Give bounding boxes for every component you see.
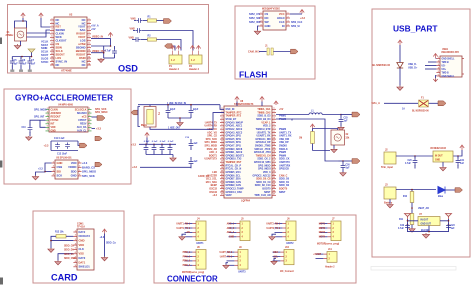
label +3.3 (decoupling) xyxy=(131,143,137,146)
wire decoupling gnd xyxy=(146,155,173,158)
U3 left net labels xyxy=(249,12,261,24)
ground (J9) xyxy=(223,265,229,269)
svg-text:4: 4 xyxy=(47,118,48,121)
U4 right pin labels xyxy=(75,108,87,132)
svg-text:5: 5 xyxy=(438,71,439,73)
svg-text:9: 9 xyxy=(52,46,53,48)
svg-text:3: 3 xyxy=(53,170,54,172)
svg-text:8: 8 xyxy=(52,43,53,45)
power port VCC (X2) xyxy=(310,124,314,129)
svg-text:DAT1: DAT1 xyxy=(79,260,86,264)
svg-text:4.7uF: 4.7uF xyxy=(405,162,412,165)
wires U8 top-left crystal rows handled below xyxy=(205,121,218,197)
power port VCC (U7 in) xyxy=(405,214,411,220)
svg-text:NC: NC xyxy=(56,21,60,25)
svg-text:SPI2_SI: SPI2_SI xyxy=(291,25,300,28)
svg-text:14: 14 xyxy=(51,62,53,65)
svg-text:1: 1 xyxy=(89,108,90,110)
svg-text:3: 3 xyxy=(274,114,275,116)
port arrow (cap pair) xyxy=(80,143,88,148)
svg-text:13: 13 xyxy=(88,60,90,62)
power port right of U8 top xyxy=(274,101,278,105)
oscillator X2 body xyxy=(331,130,350,145)
svg-text:RST: RST xyxy=(56,25,62,29)
svg-text:4: 4 xyxy=(438,66,439,69)
svg-text:6: 6 xyxy=(274,124,275,126)
wire reg bus xyxy=(396,150,462,157)
svg-text:NC: NC xyxy=(82,59,86,63)
connector 5Vin_input xyxy=(381,149,396,170)
svg-text:AUX_CL: AUX_CL xyxy=(77,130,87,133)
fuse row net label xyxy=(372,102,381,105)
svg-text:W25Q64FVSSIG: W25Q64FVSSIG xyxy=(262,8,280,11)
GYRO+ACCLEROMETER title xyxy=(15,94,113,103)
USB1 right stubs xyxy=(462,59,464,75)
svg-text:HOLD: HOLD xyxy=(277,16,285,20)
svg-text:4.7uF: 4.7uF xyxy=(105,50,112,53)
svg-text:2: 2 xyxy=(438,60,439,62)
svg-text:Battery: Battery xyxy=(384,202,393,205)
capacitor row C xyxy=(129,35,152,42)
power port arrows above header P1 xyxy=(170,46,180,50)
svg-text:GND: GND xyxy=(435,160,440,162)
svg-text:LOS: LOS xyxy=(56,56,62,60)
svg-text:6: 6 xyxy=(89,36,90,38)
svg-text:0.1uF: 0.1uF xyxy=(152,141,158,143)
svg-text:I2C_Connect: I2C_Connect xyxy=(280,270,294,273)
svg-text:REGOUT: REGOUT xyxy=(51,115,62,118)
svg-text:AUX_DA: AUX_DA xyxy=(77,126,87,129)
svg-text:4: 4 xyxy=(288,23,289,26)
svg-text:14: 14 xyxy=(88,62,90,65)
svg-text:PPM_2: PPM_2 xyxy=(183,256,191,258)
svg-text:7: 7 xyxy=(274,127,275,129)
svg-text:NC: NC xyxy=(82,63,86,67)
power port VCC (decoupling) xyxy=(145,133,149,138)
U5 right pins xyxy=(78,161,82,176)
svg-text:PWM2: PWM2 xyxy=(279,118,287,121)
capacitor C16 xyxy=(152,141,158,154)
svg-text:12: 12 xyxy=(221,144,223,146)
header J11 (power) xyxy=(313,248,337,269)
svg-text:ADC_3: ADC_3 xyxy=(227,231,235,234)
svg-text:SDIO_CK: SDIO_CK xyxy=(64,245,74,247)
svg-text:SAG: SAG xyxy=(80,28,86,32)
ground (decoupling) xyxy=(170,157,176,161)
svg-text:FSYNC: FSYNC xyxy=(51,119,59,122)
svg-text:13: 13 xyxy=(51,60,53,62)
svg-text:BL NSR0520-06: BL NSR0520-06 xyxy=(412,111,429,113)
ground (U2 right) xyxy=(98,58,104,63)
svg-text:CMD: CMD xyxy=(79,239,85,243)
svg-text:2: 2 xyxy=(79,166,80,168)
gyro IC U4 MPU-6000 body xyxy=(49,104,88,133)
svg-text:20: 20 xyxy=(273,170,275,172)
svg-text:SCLK: SCLK xyxy=(56,49,63,53)
svg-text:22: 22 xyxy=(273,177,275,179)
flash IC U3 body xyxy=(262,8,286,31)
port arrow (analog supply) xyxy=(352,112,360,117)
svg-text:CD/DAT3: CD/DAT3 xyxy=(79,234,91,238)
svg-text:3: 3 xyxy=(47,115,48,117)
svg-text:7: 7 xyxy=(89,39,90,41)
svg-text:Header 2: Header 2 xyxy=(189,68,200,71)
svg-text:WCK: WCK xyxy=(56,35,62,39)
svg-text:3: 3 xyxy=(261,20,262,22)
net label +3 (U4) xyxy=(92,127,102,130)
U3 right pin labels xyxy=(277,12,285,28)
svg-text:3: 3 xyxy=(75,239,76,241)
net label SDIO_CD xyxy=(106,243,116,245)
ground (C26) xyxy=(340,172,346,176)
capacitor C7 (OSD decoupling) xyxy=(27,57,35,72)
ground (U5) xyxy=(32,176,38,180)
U4 right net labels xyxy=(95,108,108,114)
svg-text:SDO: SDO xyxy=(71,169,77,173)
regulator U7 body xyxy=(418,214,440,225)
svg-text:BBOND: BBOND xyxy=(76,49,86,53)
svg-text:9: 9 xyxy=(274,134,275,136)
svg-text:GND: GND xyxy=(57,161,63,165)
U2 right pins xyxy=(87,18,91,65)
wires U5 left xyxy=(36,163,52,176)
wire to ground U2 right xyxy=(104,57,115,59)
op IC U2 AT7456E body xyxy=(54,13,87,73)
svg-text:AT7456E: AT7456E xyxy=(61,69,72,73)
U2 left pin labels xyxy=(56,18,68,67)
svg-text:SPI2_CS: SPI2_CS xyxy=(249,12,260,16)
svg-text:3: 3 xyxy=(438,64,439,66)
ground (card VSS) xyxy=(55,261,61,265)
svg-text:USB_D+: USB_D+ xyxy=(408,67,418,70)
svg-text:VCLK: VCLK xyxy=(41,39,48,43)
svg-text:5: 5 xyxy=(47,122,48,124)
svg-text:16: 16 xyxy=(221,157,223,159)
svg-text:25: 25 xyxy=(273,187,275,189)
svg-text:2: 2 xyxy=(89,22,90,24)
svg-text:22pF: 22pF xyxy=(170,109,176,111)
power arrow (USB1 top) xyxy=(433,54,437,59)
port arrow left (crystal) xyxy=(131,110,138,115)
svg-text:22: 22 xyxy=(221,177,223,179)
svg-text:8: 8 xyxy=(75,261,76,263)
regulator U6 ME6211 body xyxy=(430,148,453,162)
svg-text:10: 10 xyxy=(88,49,90,51)
svg-text:1uF: 1uF xyxy=(451,228,456,230)
svg-text:2: 2 xyxy=(89,111,90,113)
wires USB1 left xyxy=(425,62,436,69)
svg-text:SBOND: SBOND xyxy=(76,45,86,49)
svg-text:GND SHELL: GND SHELL xyxy=(442,76,456,78)
svg-text:SPI2_WP: SPI2_WP xyxy=(249,20,261,24)
ground (D2) xyxy=(397,86,403,91)
svg-text:2: 2 xyxy=(53,166,54,168)
svg-text:C11 0.1uF: C11 0.1uF xyxy=(54,138,65,140)
ground (xtal) xyxy=(177,122,183,126)
svg-text:5: 5 xyxy=(89,122,90,124)
U5 right pin labels xyxy=(68,161,77,178)
header P1 xyxy=(169,51,182,72)
svg-text:NC: NC xyxy=(82,18,86,22)
ground (U7) xyxy=(422,233,429,238)
svg-text:5: 5 xyxy=(89,32,90,34)
ground (divider) xyxy=(409,228,415,232)
svg-text:+3.3: +3.3 xyxy=(131,143,137,146)
svg-text:SOUT: SOUT xyxy=(41,53,49,57)
svg-text:MOT1: MOT1 xyxy=(319,223,326,225)
svg-text:CPOUT: CPOUT xyxy=(78,119,87,122)
header J9 (UART3) xyxy=(219,246,248,269)
svg-text:CLK: CLK xyxy=(79,247,85,251)
svg-text:MOTOR(servo_prog): MOTOR(servo_prog) xyxy=(317,243,339,246)
svg-text:UART2_RX 1: UART2_RX 1 xyxy=(266,222,281,225)
U8 left pin labels xyxy=(226,108,245,197)
power port VCC (U7 out) xyxy=(446,214,452,220)
wire reg gnd xyxy=(442,162,444,167)
svg-text:SCK: SCK xyxy=(57,174,63,178)
U4 right pins xyxy=(88,108,92,131)
svg-text:DAT2: DAT2 xyxy=(79,230,86,234)
svg-text:9: 9 xyxy=(75,265,76,267)
svg-text:+3.3: +3.3 xyxy=(96,127,102,130)
wire battery out xyxy=(396,189,436,192)
wire U3 GND pin xyxy=(258,26,260,30)
svg-text:SPI2_SO: SPI2_SO xyxy=(249,16,260,20)
svg-text:TMD B: TMD B xyxy=(442,72,449,74)
U4 left net labels xyxy=(34,108,47,118)
U5 left pin labels xyxy=(57,161,63,178)
port arrow (U5) xyxy=(95,162,102,166)
FLASH block frame xyxy=(235,6,315,79)
svg-text:MOTOR(servo_prog): MOTOR(servo_prog) xyxy=(182,271,204,274)
svg-text:3: 3 xyxy=(288,20,289,22)
svg-text:UART1_TX 1: UART1_TX 1 xyxy=(176,227,190,230)
svg-text:10: 10 xyxy=(273,137,275,139)
svg-text:20: 20 xyxy=(221,170,223,172)
svg-text:DO: DO xyxy=(265,16,269,20)
svg-text:13: 13 xyxy=(221,147,223,149)
ground (J10) xyxy=(271,261,277,265)
svg-text:4: 4 xyxy=(222,117,223,120)
svg-text:YOUT: YOUT xyxy=(78,25,86,29)
svg-text:CLKOUT: CLKOUT xyxy=(56,39,67,43)
svg-text:USART3TX: USART3TX xyxy=(205,158,218,161)
svg-text:10: 10 xyxy=(221,137,223,139)
U3 left pin labels xyxy=(265,12,271,28)
port arrow (CAM) xyxy=(291,49,299,54)
svg-text:12: 12 xyxy=(51,56,53,58)
svg-text:+3.3: +3.3 xyxy=(100,236,105,239)
wire U3 VCC xyxy=(290,13,302,15)
svg-text:+5V/BT: +5V/BT xyxy=(313,254,321,256)
wire +5V to diode D2 xyxy=(399,45,401,63)
svg-text:6: 6 xyxy=(438,74,439,76)
wire U8 to inductor xyxy=(276,114,309,116)
svg-text:SCL/SCLK: SCL/SCLK xyxy=(75,108,87,111)
CON1 pin labels xyxy=(79,230,91,269)
FLASH title xyxy=(239,70,267,80)
svg-text:24: 24 xyxy=(273,183,275,186)
port arrow (LED) xyxy=(455,188,463,193)
header J4 (UART1) xyxy=(176,218,206,241)
U2 left net labels xyxy=(41,39,49,64)
svg-text:GND SHELL: GND SHELL xyxy=(442,58,456,60)
ground (card left) xyxy=(48,248,54,252)
port arrow left (row D) xyxy=(165,44,176,51)
svg-text:CSB: CSB xyxy=(57,165,63,169)
svg-text:OSD: OSD xyxy=(118,64,138,74)
svg-text:SDIO_Ca: SDIO_Ca xyxy=(106,243,116,245)
svg-text:Header 2: Header 2 xyxy=(325,266,335,269)
svg-text:6: 6 xyxy=(75,252,76,254)
OSD title xyxy=(118,64,138,74)
OSD block frame xyxy=(8,5,209,74)
label UART2 (below J6) xyxy=(286,242,294,245)
svg-text:18: 18 xyxy=(221,164,223,166)
svg-text:U2: U2 xyxy=(69,13,73,17)
svg-text:21: 21 xyxy=(273,174,275,176)
svg-text:CARD: CARD xyxy=(51,273,78,283)
svg-text:4: 4 xyxy=(75,242,76,245)
capacitor pair C11 C12 xyxy=(44,138,80,155)
power port +3.3 (U3) xyxy=(300,10,306,21)
svg-text:19: 19 xyxy=(273,167,275,169)
svg-text:4: 4 xyxy=(89,28,90,31)
wires U2 right xyxy=(91,38,111,58)
svg-text:FLASH: FLASH xyxy=(239,70,267,80)
svg-text:0.1uF: 0.1uF xyxy=(160,141,166,143)
svg-text:13: 13 xyxy=(273,147,275,149)
faint sheet edge bottom right xyxy=(371,267,456,271)
svg-text:INT: INT xyxy=(51,123,55,126)
svg-text:1: 1 xyxy=(438,57,439,59)
svg-text:23: 23 xyxy=(273,180,275,182)
wires X2 xyxy=(313,129,338,151)
wire crystal to ground xyxy=(20,41,22,46)
svg-text:NC: NC xyxy=(56,63,60,67)
svg-text:UART2: UART2 xyxy=(286,242,294,245)
svg-text:SPI2_CLK: SPI2_CLK xyxy=(291,21,303,24)
svg-text:UART1: UART1 xyxy=(196,242,204,245)
svg-text:21: 21 xyxy=(221,174,223,176)
capacitor C25 xyxy=(339,115,349,127)
svg-text:SDIO_D1: SDIO_D1 xyxy=(64,254,74,256)
svg-text:18: 18 xyxy=(273,164,275,166)
page edge marks xyxy=(0,38,3,285)
svg-text:6: 6 xyxy=(47,126,48,128)
svg-text:6: 6 xyxy=(52,36,53,38)
svg-text:1 HSE_OUT: 1 HSE_OUT xyxy=(168,127,181,129)
svg-text:1uF: 1uF xyxy=(346,168,351,170)
svg-text:GND: GND xyxy=(229,237,234,239)
svg-text:5Vin_input: 5Vin_input xyxy=(381,166,393,169)
svg-text:UART2_TX 1: UART2_TX 1 xyxy=(266,227,280,230)
svg-text:RSIN: RSIN xyxy=(79,56,85,60)
CON1 pins xyxy=(73,230,77,267)
svg-text:SDOUT: SDOUT xyxy=(56,52,66,56)
U3 right net labels xyxy=(291,21,303,28)
svg-text:CLK: CLK xyxy=(279,20,285,24)
svg-text:+5V: +5V xyxy=(186,232,191,234)
power port +3.3 (reg out) xyxy=(460,145,464,150)
wire xtal caps to ground xyxy=(168,117,191,121)
svg-text:1uF: 1uF xyxy=(22,63,27,66)
svg-text:SCLK: SCLK xyxy=(41,50,48,54)
svg-text:DAT0: DAT0 xyxy=(79,256,86,260)
svg-text:17: 17 xyxy=(273,161,275,163)
port arrow (U4 right) xyxy=(92,116,106,121)
CONNECTOR block frame xyxy=(154,215,356,283)
capacitor row B xyxy=(130,28,194,51)
svg-text:AD0/SDO: AD0/SDO xyxy=(51,112,62,115)
header P2 xyxy=(189,51,202,72)
svg-text:5Vin_A: 5Vin_A xyxy=(372,102,381,105)
U8 right net labels xyxy=(279,108,292,194)
svg-text:U4 MPU-6000: U4 MPU-6000 xyxy=(58,104,74,107)
svg-text:VDDIO: VDDIO xyxy=(68,165,76,169)
power ports above U8 xyxy=(235,97,264,107)
port arrow small (U4 right low) xyxy=(95,136,102,140)
svg-text:GND: GND xyxy=(71,174,77,178)
svg-text:ADC_2: ADC_2 xyxy=(227,227,235,230)
svg-text:17: 17 xyxy=(221,161,223,163)
capacitor row A xyxy=(131,16,152,23)
wires U4 left xyxy=(30,120,46,127)
svg-text:PPM_4: PPM_4 xyxy=(183,264,191,267)
svg-text:8: 8 xyxy=(89,43,90,45)
svg-text:SYNC_IN: SYNC_IN xyxy=(56,59,68,63)
svg-text:1 2: 1 2 xyxy=(191,58,195,62)
CONNECTOR title xyxy=(167,275,218,284)
wire HSE_OUT xyxy=(150,113,224,130)
USB_PART block frame xyxy=(372,9,470,257)
svg-text:27: 27 xyxy=(273,194,275,196)
svg-text:2: 2 xyxy=(52,22,53,24)
svg-text:VDD: VDD xyxy=(79,243,85,247)
svg-text:1: 1 xyxy=(288,12,289,14)
svg-text:15: 15 xyxy=(273,154,275,156)
crystal Y1 body xyxy=(141,107,159,128)
svg-text:SPI1_MOSI: SPI1_MOSI xyxy=(34,108,47,111)
svg-text:1uF: 1uF xyxy=(31,63,36,66)
svg-text:1: 1 xyxy=(89,18,90,20)
svg-text:MOT2: MOT2 xyxy=(319,228,326,230)
wire CON1 VSS xyxy=(58,254,73,261)
svg-text:UD-: UD- xyxy=(442,65,446,67)
GYRO block frame xyxy=(4,89,131,184)
power port VCC (U2 right) xyxy=(108,33,112,38)
svg-text:26: 26 xyxy=(221,190,223,192)
svg-text:3: 3 xyxy=(79,170,80,172)
LED D3 blue xyxy=(438,187,455,199)
svg-text:11: 11 xyxy=(273,141,275,143)
ground (card right) xyxy=(101,257,107,261)
ground (C25) xyxy=(338,127,344,131)
svg-text:2: 2 xyxy=(288,16,289,18)
power port +5V (USB) xyxy=(398,40,402,45)
ground (X2) xyxy=(331,149,337,153)
svg-text:PPM_3: PPM_3 xyxy=(183,261,191,263)
net label VBAT_AD xyxy=(411,207,429,210)
svg-text:USB-MICRO-5P3: USB-MICRO-5P3 xyxy=(441,52,460,54)
svg-text:LQFP64: LQFP64 xyxy=(241,200,251,203)
svg-text:GND: GND xyxy=(51,130,57,133)
power port VCC (OSD) xyxy=(39,13,43,18)
ground (J4) xyxy=(179,236,185,240)
power port VCC (OSD crystal) xyxy=(21,13,25,18)
svg-text:1A: 1A xyxy=(402,108,405,111)
svg-text:1uF: 1uF xyxy=(194,161,199,163)
